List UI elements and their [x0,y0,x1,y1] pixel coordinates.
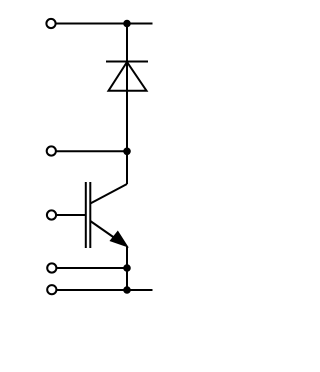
wire: terminal 5 to bottom node, with right stub [56,289,152,291]
diode D1 cathode bar [106,61,148,63]
terminal 5 (bottom terminal) [47,285,56,294]
wire: terminal 4 to emitter node [56,267,127,269]
IGBT Q1 gate bar (left) [85,182,87,248]
wire: terminal 2 to mid node [56,150,127,152]
junction: mid node [123,148,131,156]
wire: gate terminal to gate bar [56,214,86,216]
junction: emitter node [123,264,131,272]
diode D1 anode triangle [109,62,147,91]
emitter arrowhead [110,231,127,247]
terminal 1 (collector terminal, top left) [46,19,55,28]
wire: terminal 1 to top node, with right stub [56,23,153,25]
wire: collector diagonal into IGBT body [90,184,127,204]
terminal 2 (mid left) [47,146,56,155]
terminal 4 (emitter terminal) [47,263,56,272]
junction: bottom node [123,286,131,294]
wire: emitter diagonal from IGBT body [90,221,124,245]
IGBT Q1 body bar (right) [89,182,91,248]
wire: vertical main bus from top node down to collector bend [126,24,128,185]
junction: top node [123,20,131,28]
terminal 3 (gate terminal) [47,210,56,219]
wire: emitter vertical down to bottom node [126,247,128,291]
